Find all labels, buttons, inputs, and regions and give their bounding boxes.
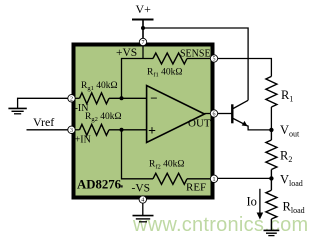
wire V+ supply bar xyxy=(132,20,154,40)
node minus input junction xyxy=(120,96,124,100)
svg-text:1: 1 xyxy=(213,177,216,183)
wire feedback top row xyxy=(122,59,211,99)
label Rg2 40kOhm xyxy=(85,112,122,123)
wire +IN row xyxy=(72,129,147,131)
resistor Rf1 xyxy=(153,53,187,64)
pin 7 +VS xyxy=(139,38,146,46)
label Vload xyxy=(280,173,303,189)
resistor Rg2 xyxy=(80,124,110,135)
label REF xyxy=(186,182,206,194)
resistor Rf2 xyxy=(153,173,187,184)
wire SENSE to R1 top xyxy=(218,59,272,77)
watermark www.cntronics.com xyxy=(132,214,308,236)
label R2 xyxy=(280,149,292,165)
svg-text:7: 7 xyxy=(142,40,145,46)
wire emitter to Vout node xyxy=(248,126,271,130)
label R1 xyxy=(281,88,293,104)
ground left xyxy=(8,108,26,113)
label SENSE xyxy=(180,48,211,59)
svg-text:5: 5 xyxy=(213,57,216,63)
node dot after AD8276 label xyxy=(121,185,123,187)
node Vload xyxy=(269,176,273,180)
svg-text:SENSE: SENSE xyxy=(180,48,211,59)
pin 2 -IN xyxy=(68,95,75,103)
svg-text:2: 2 xyxy=(70,97,73,103)
ground below -VS xyxy=(133,216,154,222)
pin 4 -VS xyxy=(139,196,146,204)
resistor Rg1 xyxy=(80,93,110,104)
resistor R1 xyxy=(266,76,277,107)
svg-text:Rf2 40kΩ: Rf2 40kΩ xyxy=(149,160,184,171)
svg-text:6: 6 xyxy=(213,112,216,118)
svg-text:Rg1 40kΩ: Rg1 40kΩ xyxy=(81,81,118,92)
wire pin2 to left ground xyxy=(18,98,68,108)
wire pin4 to ground xyxy=(142,203,144,215)
svg-text:Rg2 40kΩ: Rg2 40kΩ xyxy=(85,112,122,123)
wire -IN row xyxy=(72,97,147,99)
pin 3 +IN xyxy=(68,126,75,134)
label Rload xyxy=(283,200,305,216)
label +VS xyxy=(116,47,137,59)
wire feedback bottom row xyxy=(122,130,211,179)
svg-text:OUT: OUT xyxy=(188,118,211,130)
label +IN xyxy=(75,134,91,145)
label AD8276 xyxy=(77,178,122,192)
node junction on V+ rail xyxy=(141,26,145,30)
op-amp IC body AD8276 xyxy=(74,45,213,198)
transistor Q1 xyxy=(218,100,248,126)
wire opamp output to pin 6 xyxy=(205,113,211,115)
svg-text:REF: REF xyxy=(186,182,206,194)
svg-text:Io: Io xyxy=(247,195,257,209)
label -VS xyxy=(132,183,151,195)
label Vout xyxy=(280,123,300,139)
resistor R2 xyxy=(266,130,277,179)
node plus input junction xyxy=(120,128,124,132)
label OUT xyxy=(188,118,211,130)
wire R1 bottom to Vout node xyxy=(270,107,272,130)
current arrow Io xyxy=(247,189,264,220)
svg-text:Rf1 40kΩ: Rf1 40kΩ xyxy=(147,68,182,79)
node Vout xyxy=(269,128,273,132)
label Rg1 40kOhm xyxy=(81,81,118,92)
wire V+ rail to transistor collector xyxy=(143,28,248,100)
svg-text:Vref: Vref xyxy=(33,115,54,129)
label Rf1 40kOhm xyxy=(147,68,182,79)
svg-text:V+: V+ xyxy=(136,2,152,16)
op-amp U1 triangle xyxy=(147,86,205,143)
label V+ xyxy=(136,2,152,16)
svg-text:4: 4 xyxy=(141,198,144,204)
svg-text:−: − xyxy=(150,90,157,105)
pin 5 SENSE xyxy=(210,55,217,63)
svg-text:-VS: -VS xyxy=(132,183,151,195)
pin 1 REF xyxy=(210,175,217,183)
svg-text:+VS: +VS xyxy=(116,47,137,59)
label -IN xyxy=(75,103,89,114)
pin 6 OUT xyxy=(210,110,217,118)
svg-text:www.cntronics.com: www.cntronics.com xyxy=(132,214,308,236)
wire pin7 stub xyxy=(142,46,144,59)
label Rf2 40kOhm xyxy=(149,160,184,171)
wire REF to Vload node xyxy=(218,177,272,179)
svg-text:AD8276: AD8276 xyxy=(77,178,122,192)
ground below Rload xyxy=(264,230,280,235)
resistor Rload xyxy=(266,178,277,230)
svg-text:+: + xyxy=(148,124,156,139)
wire Vref to pin3 xyxy=(27,129,68,131)
label Vref xyxy=(33,115,54,129)
svg-text:3: 3 xyxy=(70,128,73,134)
svg-text:+IN: +IN xyxy=(75,134,91,145)
